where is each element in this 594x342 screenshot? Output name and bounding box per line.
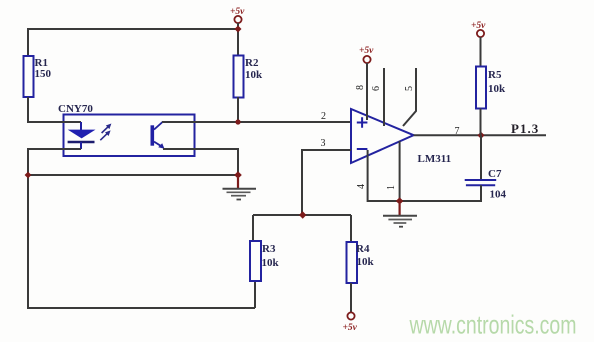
node junction R2 / collector / pin2 — [235, 119, 240, 124]
op-amp U1 LM311 triangle — [351, 109, 414, 163]
svg-text:R5: R5 — [488, 69, 502, 81]
svg-text:CNY70: CNY70 — [58, 103, 93, 115]
svg-text:150: 150 — [35, 68, 52, 80]
wire R3 top lead — [252, 215, 254, 241]
wire output pin 7 to P1.3 — [414, 134, 546, 136]
wire pin 1 — [399, 141, 401, 202]
wire emitter to ground node — [163, 149, 238, 175]
svg-text:+5v: +5v — [343, 323, 358, 333]
phototransistor of CNY70 — [151, 122, 165, 149]
ground below emitter node — [223, 178, 257, 200]
wire C7 top lead — [480, 135, 482, 180]
op-amp minus marking — [357, 148, 368, 150]
svg-text:LM311: LM311 — [418, 153, 452, 165]
wire R3 bottom lead — [254, 281, 256, 308]
wire left vertical to bottom rail — [28, 175, 255, 308]
wire R5 top lead — [480, 37, 482, 67]
svg-text:www.cntronics.com: www.cntronics.com — [409, 310, 577, 340]
node junction pin3 / divider — [299, 211, 306, 218]
svg-text:4: 4 — [356, 184, 367, 189]
LED light arrow lower — [100, 133, 107, 140]
wire pin 8 — [366, 63, 368, 120]
wire op-amp bottom rail to capacitor — [368, 200, 481, 202]
power +5v top for R2 — [230, 7, 245, 56]
wire R4 top lead — [350, 215, 352, 242]
svg-text:8: 8 — [355, 85, 366, 90]
node junction emitter / mid rail — [234, 171, 242, 179]
svg-text:R2: R2 — [245, 57, 259, 69]
power +5v below R4 — [343, 312, 358, 333]
wire op-amp pin 3 input — [302, 150, 351, 215]
wire R1 bottom lead — [27, 97, 29, 123]
svg-text:R4: R4 — [356, 243, 370, 255]
wire divider rail R3/R4 — [253, 214, 351, 216]
wire R1 top lead — [27, 28, 29, 56]
capacitor C7 — [465, 180, 497, 185]
wire R2 bottom lead — [237, 97, 239, 122]
svg-text:6: 6 — [371, 86, 382, 91]
svg-text:10k: 10k — [245, 69, 263, 81]
node junction pin1 ground — [396, 197, 403, 204]
svg-text:2: 2 — [321, 111, 326, 122]
svg-text:R3: R3 — [262, 243, 276, 255]
svg-text:7: 7 — [455, 126, 460, 137]
svg-text:10k: 10k — [262, 257, 280, 269]
node junction output / R5 / C7 — [477, 132, 484, 139]
wire C7 bottom lead — [480, 185, 482, 202]
wire R5 bottom lead — [480, 109, 482, 136]
optocoupler CNY70 box — [64, 115, 195, 157]
wire pin 5 bent lead — [403, 68, 416, 126]
resistor R4 — [347, 242, 358, 283]
resistor R5 — [476, 67, 486, 109]
wire LED cathode — [28, 149, 81, 175]
svg-text:10k: 10k — [488, 83, 506, 95]
resistor R3 — [250, 241, 261, 281]
svg-text:C7: C7 — [488, 168, 502, 180]
node junction left mid rail — [25, 172, 32, 179]
power +5v for op-amp pin 8 — [359, 46, 374, 63]
wire mid rail to ground — [28, 174, 238, 176]
op-amp plus marking — [357, 117, 368, 128]
svg-text:10k: 10k — [357, 256, 375, 268]
wire LED anode — [28, 121, 81, 123]
svg-text:3: 3 — [321, 138, 326, 149]
resistor R2 — [234, 56, 244, 98]
resistor R1 — [24, 56, 34, 97]
svg-text:P1.3: P1.3 — [511, 121, 539, 136]
svg-text:+5v: +5v — [359, 46, 374, 56]
svg-text:1: 1 — [386, 185, 397, 190]
node junction top rail / R2 — [235, 26, 242, 33]
wire R4 bottom lead — [350, 283, 352, 312]
LED inside CNY70 — [68, 122, 96, 149]
svg-text:5: 5 — [404, 86, 415, 91]
ground below pin 1 — [383, 204, 417, 227]
wire top rail R1 to R2 — [28, 28, 238, 30]
power +5v for R5 — [471, 21, 486, 37]
svg-text:104: 104 — [490, 189, 507, 201]
wire collector to node and op-amp pin 2 — [162, 121, 351, 123]
wire pin 4 — [367, 150, 369, 202]
wire pin 6 — [383, 68, 385, 126]
LED light arrow upper — [102, 126, 109, 133]
